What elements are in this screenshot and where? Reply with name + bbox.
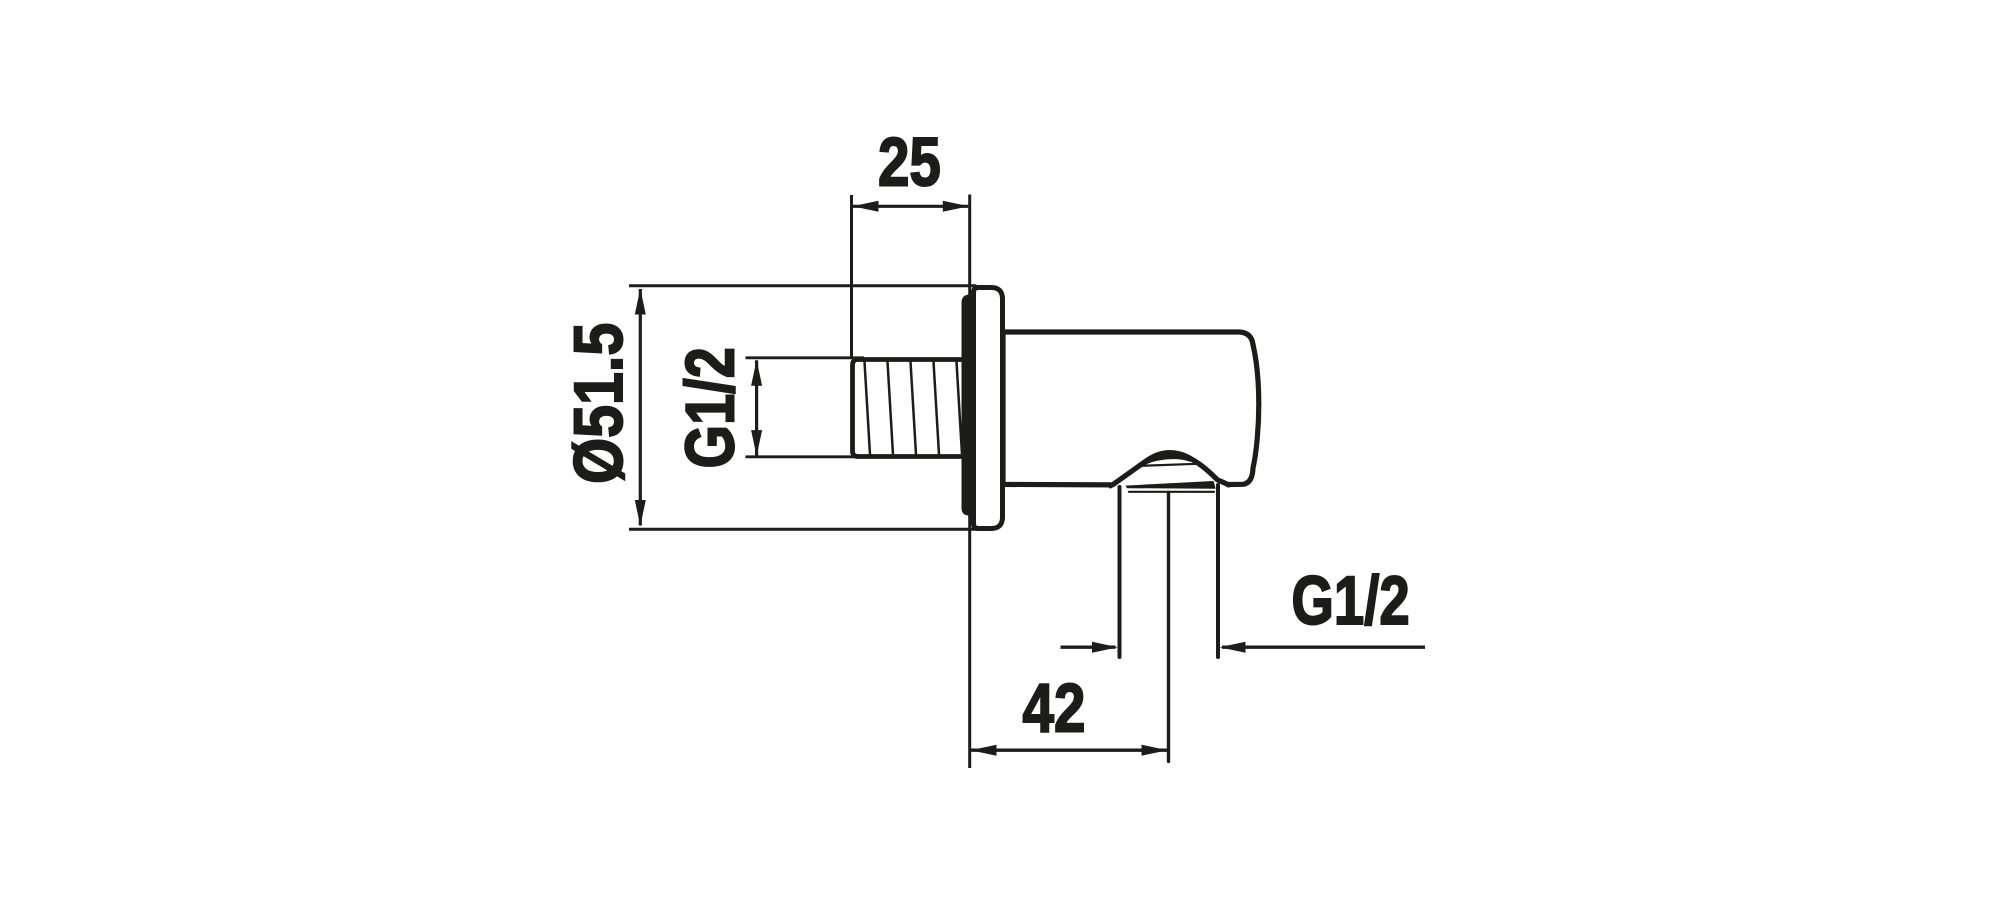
wall plate front edge bar <box>962 295 977 516</box>
svg-text:G1/2: G1/2 <box>672 347 749 468</box>
svg-text:42: 42 <box>1023 670 1086 747</box>
dim G1/2 left: bottom arrowhead <box>751 430 762 456</box>
threaded nipple G1/2 (rect with rounded left corners) <box>853 360 967 457</box>
dim G1/2 right: left arrow line <box>1061 646 1116 649</box>
svg-text:G1/2: G1/2 <box>1292 563 1410 640</box>
dim 25: left extension line <box>850 195 853 359</box>
thread hatch line 3 <box>911 362 917 455</box>
dim 51.5: bottom extension line <box>629 528 980 531</box>
svg-text:Ø51.5: Ø51.5 <box>560 323 637 484</box>
thread hatch line 1 <box>865 362 871 455</box>
elbow body outline with outlet hood <box>1003 332 1259 485</box>
dim G1/2 right: left arrowhead pointing right <box>1092 642 1118 653</box>
dim 42: dimension line <box>971 749 1167 752</box>
svg-text:25: 25 <box>878 124 941 201</box>
dim G1/2 right: right arrow line <box>1222 646 1425 649</box>
dim 25: left arrowhead <box>853 201 879 212</box>
outlet hood shading crescent <box>1144 453 1192 465</box>
hood right slope overshoot tip <box>1219 481 1229 486</box>
dim 42: right arrowhead <box>1142 745 1168 756</box>
outlet cone bottom slab <box>1126 481 1216 489</box>
outlet pipe left edge / extension <box>1118 487 1122 657</box>
dim 42: left arrowhead <box>971 745 997 756</box>
thread hatch line 2 <box>888 362 894 455</box>
wall plate (escutcheon) outline <box>974 288 1003 529</box>
dim 25: dimension line <box>853 205 968 208</box>
outlet pipe right edge / extension <box>1216 485 1220 657</box>
dim 25: right arrowhead <box>943 201 969 212</box>
dim G1/2 left: bottom extension line <box>746 455 865 458</box>
thread hatch line 5 <box>957 362 963 455</box>
dim G1/2 left: top arrowhead <box>751 360 762 386</box>
outlet pipe axis line / extension for 42 <box>1167 493 1170 762</box>
dim 51.5: top arrowhead <box>635 289 646 315</box>
dim 51.5: bottom arrowhead <box>635 500 646 526</box>
dim 51.5: dimension line <box>639 289 642 526</box>
dim G1/2 left: top extension line <box>746 356 865 359</box>
outlet rim line <box>1129 491 1214 493</box>
dim G1/2 right: right arrowhead pointing left <box>1220 642 1246 653</box>
dim 25 / 42: long right extension line (wall face) <box>968 195 971 769</box>
dim 51.5: top extension line <box>629 284 977 287</box>
outlet hood inner line <box>1142 464 1197 466</box>
hood left slope overshoot tip <box>1110 481 1118 487</box>
thread hatch line 4 <box>934 362 940 455</box>
dim G1/2 left: dimension line <box>755 360 758 455</box>
